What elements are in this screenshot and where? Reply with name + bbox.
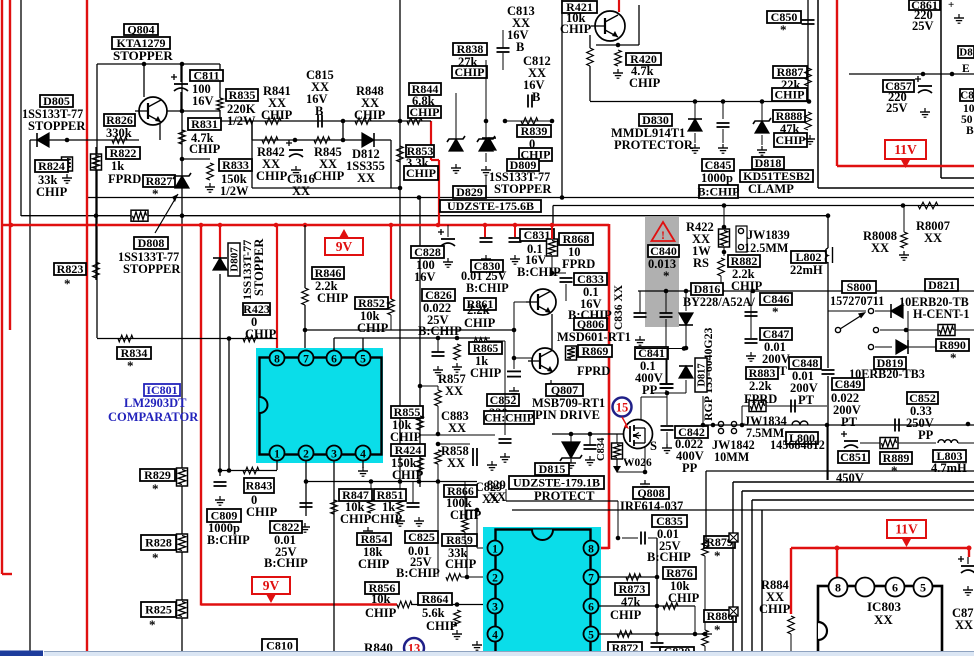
wire — [828, 310, 866, 312]
text 0.022 — [831, 391, 859, 405]
resistor R889 resistor — [880, 438, 898, 449]
label UDZSTE-175.6B — [440, 199, 541, 213]
wire base drop — [513, 302, 515, 330]
svg-text:R869: R869 — [582, 344, 609, 358]
svg-text:CHIP: CHIP — [759, 602, 791, 616]
text 220 — [914, 8, 933, 22]
text D812 — [352, 147, 380, 161]
wire to R835 — [219, 64, 221, 98]
wire after R864 — [411, 604, 487, 606]
svg-text:FPRD: FPRD — [744, 392, 777, 406]
resistor R844 — [407, 118, 422, 125]
text RS — [693, 256, 709, 270]
text 25V — [275, 545, 297, 559]
svg-text:R834: R834 — [121, 346, 148, 360]
resistor R822 — [91, 154, 102, 170]
text 200V — [762, 352, 790, 366]
wire — [477, 547, 487, 549]
svg-text:FPRD: FPRD — [108, 172, 141, 186]
wire — [648, 537, 657, 539]
wire — [652, 392, 686, 394]
text CHIP — [36, 185, 68, 199]
ground top right — [954, 14, 964, 23]
red stub to rail — [438, 160, 440, 225]
diode D816 diode — [679, 313, 693, 325]
text CHIP — [668, 591, 700, 605]
label R888 — [773, 109, 805, 123]
wire C812 row — [505, 120, 553, 122]
svg-text:16V: 16V — [192, 94, 214, 108]
wire pin3 down — [333, 460, 335, 651]
resistor R839 resistor — [521, 118, 538, 125]
label R823 — [54, 262, 86, 276]
text B:CHIP — [647, 550, 691, 564]
capacitor C835 cap — [641, 532, 645, 545]
text STOPPER — [494, 182, 552, 196]
svg-text:IC801: IC801 — [146, 383, 177, 397]
junction — [436, 336, 441, 341]
red stub to IC801 pin8 — [276, 225, 278, 352]
svg-text:JW1839: JW1839 — [747, 228, 790, 242]
text 829 — [487, 478, 506, 492]
wire x229 down — [228, 339, 230, 470]
resistor R845 — [314, 137, 330, 144]
wire — [437, 406, 439, 434]
svg-text:S: S — [650, 439, 657, 453]
svg-text:C847: C847 — [763, 327, 790, 341]
text B:CHIP — [207, 533, 250, 547]
text FPRD — [562, 257, 595, 271]
label C810 — [262, 639, 297, 653]
text C812 — [523, 54, 551, 68]
svg-text:S800: S800 — [847, 280, 872, 294]
svg-text:C810: C810 — [266, 639, 293, 653]
red stub from R844 — [430, 121, 432, 160]
label R859 — [442, 533, 477, 547]
wire y348 — [636, 348, 686, 350]
IC802 pin 5 — [584, 627, 599, 642]
label C850 — [767, 10, 801, 24]
IC803 pin 6 — [886, 578, 905, 597]
svg-text:9V: 9V — [336, 239, 353, 254]
capacitor cap — [300, 503, 313, 507]
wire y501 — [506, 500, 618, 502]
text R845 — [314, 145, 342, 159]
inductor L802 — [825, 247, 832, 263]
svg-text:CHIP: CHIP — [246, 505, 278, 519]
svg-text:6: 6 — [892, 581, 898, 595]
capacitor C831 cap b — [509, 238, 522, 242]
text C815 — [306, 68, 334, 82]
svg-text:XX: XX — [447, 456, 465, 470]
IC U801 body — [256, 348, 383, 463]
capacitor C850 cap — [802, 20, 815, 24]
text 0 — [251, 315, 257, 329]
text 16V — [192, 94, 214, 108]
svg-text:STOPPER: STOPPER — [123, 262, 181, 276]
text R8007 — [916, 219, 950, 233]
ground — [452, 630, 462, 639]
text CHIP — [560, 22, 592, 36]
ground — [509, 387, 519, 396]
svg-text:L802: L802 — [795, 250, 821, 264]
ground — [500, 453, 510, 462]
label D809 — [507, 158, 539, 172]
wire Q804 top — [97, 63, 220, 65]
text XX — [528, 66, 546, 80]
text 145684812 — [770, 438, 825, 452]
svg-text:D816: D816 — [694, 282, 721, 296]
resistor R869 resistor — [566, 346, 577, 360]
text * — [663, 268, 670, 283]
text 1SS133T-77 vertical — [240, 240, 254, 300]
connector pad2 — [729, 607, 738, 616]
text XX — [311, 80, 329, 94]
wire to Q805 — [143, 64, 145, 97]
junction — [550, 271, 555, 276]
text CLAMP — [748, 182, 794, 196]
label R890 — [936, 338, 969, 352]
switch S800 arm — [840, 312, 866, 329]
label R827 — [143, 174, 175, 188]
text CHIP — [256, 169, 288, 183]
text 4.7mH — [931, 461, 967, 475]
label R888 CHIP — [774, 133, 807, 147]
ground D815 — [566, 459, 576, 468]
text 400V — [676, 449, 704, 463]
svg-text:2: 2 — [303, 449, 309, 461]
svg-text:CHIP: CHIP — [668, 591, 700, 605]
wire x514 down — [513, 330, 515, 369]
svg-text:H-CENT-1: H-CENT-1 — [913, 307, 969, 321]
red junction — [436, 223, 441, 228]
junction — [455, 336, 460, 341]
text 10 — [963, 103, 974, 115]
junction — [693, 632, 698, 637]
text XX — [692, 232, 710, 246]
inductor L803 — [938, 440, 958, 443]
IC802 pin 2 — [488, 570, 503, 585]
diode D805 — [37, 133, 49, 147]
capacitor cap pin5 row — [432, 352, 445, 356]
jumper terminal — [718, 421, 723, 426]
svg-text:CHIP: CHIP — [357, 321, 389, 335]
junction — [475, 508, 480, 513]
text PP — [682, 461, 698, 475]
svg-text:C852: C852 — [909, 391, 936, 405]
svg-text:47k: 47k — [621, 595, 641, 609]
capacitor C831 cap a — [480, 238, 493, 242]
label R824 — [35, 159, 68, 173]
power label 11V — [885, 140, 926, 168]
IC802 pin 4 — [488, 627, 503, 642]
ground C857 — [920, 108, 930, 117]
ground zener1 — [451, 164, 461, 173]
text XX — [319, 157, 337, 171]
label C822 — [270, 520, 302, 534]
border horizontal y188 — [818, 187, 974, 189]
svg-text:R831: R831 — [191, 117, 218, 131]
text 10k — [371, 592, 391, 606]
junction — [966, 422, 971, 427]
diode zener2 — [477, 136, 495, 151]
text 1000p — [208, 521, 240, 535]
label KTA1279 — [112, 36, 170, 50]
svg-text:XX: XX — [292, 184, 310, 198]
junction — [369, 479, 374, 484]
junction — [484, 119, 489, 124]
text 16V — [414, 270, 436, 284]
resistor R882 resistor — [718, 258, 725, 276]
junction — [512, 328, 517, 333]
capacitor C811 — [171, 74, 188, 91]
text 0.01 — [764, 340, 786, 354]
wire pin6 up — [333, 338, 335, 351]
text CHIP — [731, 279, 763, 293]
wire to IC802 pin1 — [476, 510, 478, 548]
wire — [617, 501, 619, 538]
resistor R8007 resistor — [918, 202, 938, 209]
svg-text:R835: R835 — [229, 88, 256, 102]
text XX — [874, 612, 893, 627]
text CHIP — [390, 430, 422, 444]
red stub R421 — [618, 0, 620, 12]
capacitor C812 cap — [528, 95, 532, 108]
label R822 — [106, 146, 140, 160]
label IC801 — [144, 383, 180, 397]
resistor resistor pin5 — [617, 631, 632, 638]
svg-text:R826: R826 — [106, 113, 133, 127]
svg-text:CHIP: CHIP — [610, 608, 642, 622]
svg-text:15: 15 — [616, 401, 629, 415]
junction — [904, 328, 909, 333]
text STOPPER — [28, 119, 86, 133]
IC803 pin 8 — [829, 578, 848, 597]
border v1 — [741, 491, 743, 656]
label C828 — [411, 245, 444, 259]
wire x305 — [304, 225, 306, 288]
svg-text:XX: XX — [448, 421, 466, 435]
svg-text:R846: R846 — [315, 266, 342, 280]
junction — [825, 423, 830, 428]
inductor L800 — [792, 421, 808, 425]
wire y330 comparator out — [305, 329, 514, 331]
svg-text:STOPPER: STOPPER — [28, 119, 86, 133]
text 25V — [912, 19, 934, 33]
ground D830 — [690, 144, 700, 153]
svg-text:CHIP: CHIP — [340, 512, 372, 526]
power label 9V — [252, 577, 290, 603]
svg-text:CHIP: CHIP — [189, 142, 221, 156]
text CHIP — [464, 316, 496, 330]
wire x96 — [95, 147, 97, 216]
junction — [807, 99, 812, 104]
label Q808 — [633, 486, 669, 500]
text 1W — [692, 244, 711, 258]
jumper JW1839 box — [736, 226, 747, 252]
svg-text:9V: 9V — [263, 578, 280, 593]
svg-text:R888: R888 — [776, 109, 803, 123]
transistor Q808 MOSFET — [624, 420, 653, 449]
text 0.01 — [408, 544, 430, 558]
text 0.022 — [675, 437, 703, 451]
power label 9V — [325, 229, 363, 255]
text * — [714, 622, 721, 637]
svg-text:5: 5 — [920, 581, 926, 595]
resistor R851 resistor — [368, 499, 375, 513]
svg-text:PIN DRIVE: PIN DRIVE — [535, 408, 600, 422]
label R853 CHIP — [404, 166, 438, 180]
label KD51TESB2 — [740, 169, 813, 183]
red junction — [967, 546, 972, 551]
resistor R884 resistor — [788, 616, 795, 634]
svg-text:B:CHIP: B:CHIP — [466, 281, 509, 295]
svg-text:*: * — [780, 22, 787, 37]
wire drop x391 — [390, 140, 392, 188]
svg-text:PROTECTOR: PROTECTOR — [614, 138, 694, 152]
text 2.2k — [732, 267, 755, 281]
svg-text:D829: D829 — [456, 185, 483, 199]
svg-text:R873: R873 — [619, 582, 646, 596]
ground pin4 — [358, 467, 368, 476]
wire pin7 row — [599, 576, 657, 578]
svg-text:CHIP: CHIP — [445, 557, 477, 571]
arrow to D808 — [155, 194, 178, 233]
svg-text:1k: 1k — [111, 159, 124, 173]
wire vertical x400 — [399, 0, 401, 482]
junction — [180, 109, 185, 114]
resistor R868 resistor — [547, 239, 558, 256]
capacitor C848 series cap — [822, 370, 835, 374]
text 0.1 — [640, 359, 656, 373]
junction — [341, 138, 346, 143]
text 7.5MM — [746, 426, 785, 440]
label C809 — [207, 509, 241, 523]
text 12.5MM — [744, 241, 789, 255]
label R844 CHIP — [408, 105, 441, 119]
junction — [303, 328, 308, 333]
resistor R828 resistor — [177, 534, 188, 552]
label R853 — [406, 144, 434, 158]
svg-text:3: 3 — [331, 449, 337, 461]
svg-text:CHIP: CHIP — [464, 316, 496, 330]
svg-text:XX: XX — [445, 384, 463, 398]
svg-text:D807: D807 — [229, 247, 241, 272]
label R851 — [374, 488, 406, 502]
label R829 — [140, 468, 175, 482]
resistor R847 resistor — [331, 500, 338, 514]
wire pin2 down — [305, 460, 307, 516]
svg-text:CHIP: CHIP — [776, 133, 806, 147]
wire — [487, 340, 505, 342]
resistor R846 resistor — [302, 288, 309, 305]
text C834 vertical — [596, 437, 607, 461]
label R854 — [357, 532, 391, 546]
svg-text:CHIP: CHIP — [560, 22, 592, 36]
ground — [300, 523, 310, 532]
text B — [532, 90, 540, 104]
text 22mH — [790, 263, 823, 277]
wire long y197 — [87, 197, 974, 199]
label D805 — [40, 94, 73, 108]
wire Q420 emitter row — [596, 44, 639, 46]
text XX — [512, 16, 530, 30]
svg-text:CHIP: CHIP — [36, 185, 68, 199]
text XX — [766, 590, 784, 604]
svg-text:R823: R823 — [57, 262, 84, 276]
junction — [436, 479, 441, 484]
svg-text:R887: R887 — [777, 65, 804, 79]
label R423 — [243, 302, 270, 316]
capacitor C cap right — [958, 556, 974, 573]
svg-text:*: * — [152, 550, 159, 565]
junction — [720, 289, 725, 294]
svg-text:D818: D818 — [755, 156, 782, 170]
wire — [898, 442, 936, 444]
wire drain to C842 — [641, 396, 667, 398]
junction — [684, 289, 689, 294]
resistor R852 resistor — [388, 299, 395, 315]
wire — [505, 489, 507, 501]
wire main vertical x182 — [181, 64, 183, 651]
svg-text:6: 6 — [588, 602, 594, 614]
text B:CHIP — [264, 556, 308, 570]
wire row y101 — [590, 101, 809, 103]
label R879 — [704, 535, 735, 549]
svg-text:*: * — [149, 617, 156, 632]
text 1SS355 — [346, 159, 385, 173]
svg-text:CHIP: CHIP — [629, 76, 661, 90]
red stub to D807 — [219, 225, 221, 259]
svg-text:25V: 25V — [886, 101, 908, 115]
resistor R8008 resistor — [901, 232, 908, 248]
text 33k — [448, 546, 468, 560]
text 0 — [251, 493, 257, 507]
wire pin4 down — [362, 460, 364, 468]
capacitor C836 cap b — [660, 313, 673, 317]
wire — [437, 338, 439, 352]
IC801 pin 1 — [270, 446, 285, 461]
resistor resistor to pin2 — [446, 574, 461, 581]
svg-text:4: 4 — [492, 630, 498, 642]
text PT — [771, 364, 788, 378]
label C811 — [190, 69, 223, 83]
text B:CHIP — [396, 566, 440, 580]
label C8xx partial — [960, 89, 974, 102]
text CHIP — [357, 321, 389, 335]
svg-text:STOPPER: STOPPER — [113, 48, 173, 63]
wire from C849 — [702, 396, 704, 425]
ground — [757, 146, 767, 155]
capacitor C851 cap — [841, 431, 858, 448]
wire x828 mid — [827, 262, 829, 368]
wire to IC802 pin2 — [461, 576, 487, 578]
svg-text:C851: C851 — [840, 450, 867, 464]
resistor R865 resistor — [472, 338, 487, 345]
text 330k — [106, 126, 132, 140]
svg-text:R883: R883 — [749, 366, 776, 380]
text * — [127, 358, 134, 373]
text PT — [841, 415, 858, 429]
junction — [512, 356, 517, 361]
IC802 pin 7 — [584, 570, 599, 585]
wire — [722, 129, 724, 143]
wire stub x553 — [552, 206, 554, 226]
label R876 — [663, 566, 696, 580]
wire x827 low — [826, 425, 828, 480]
text S — [650, 439, 657, 453]
jumper terminal — [868, 344, 873, 349]
